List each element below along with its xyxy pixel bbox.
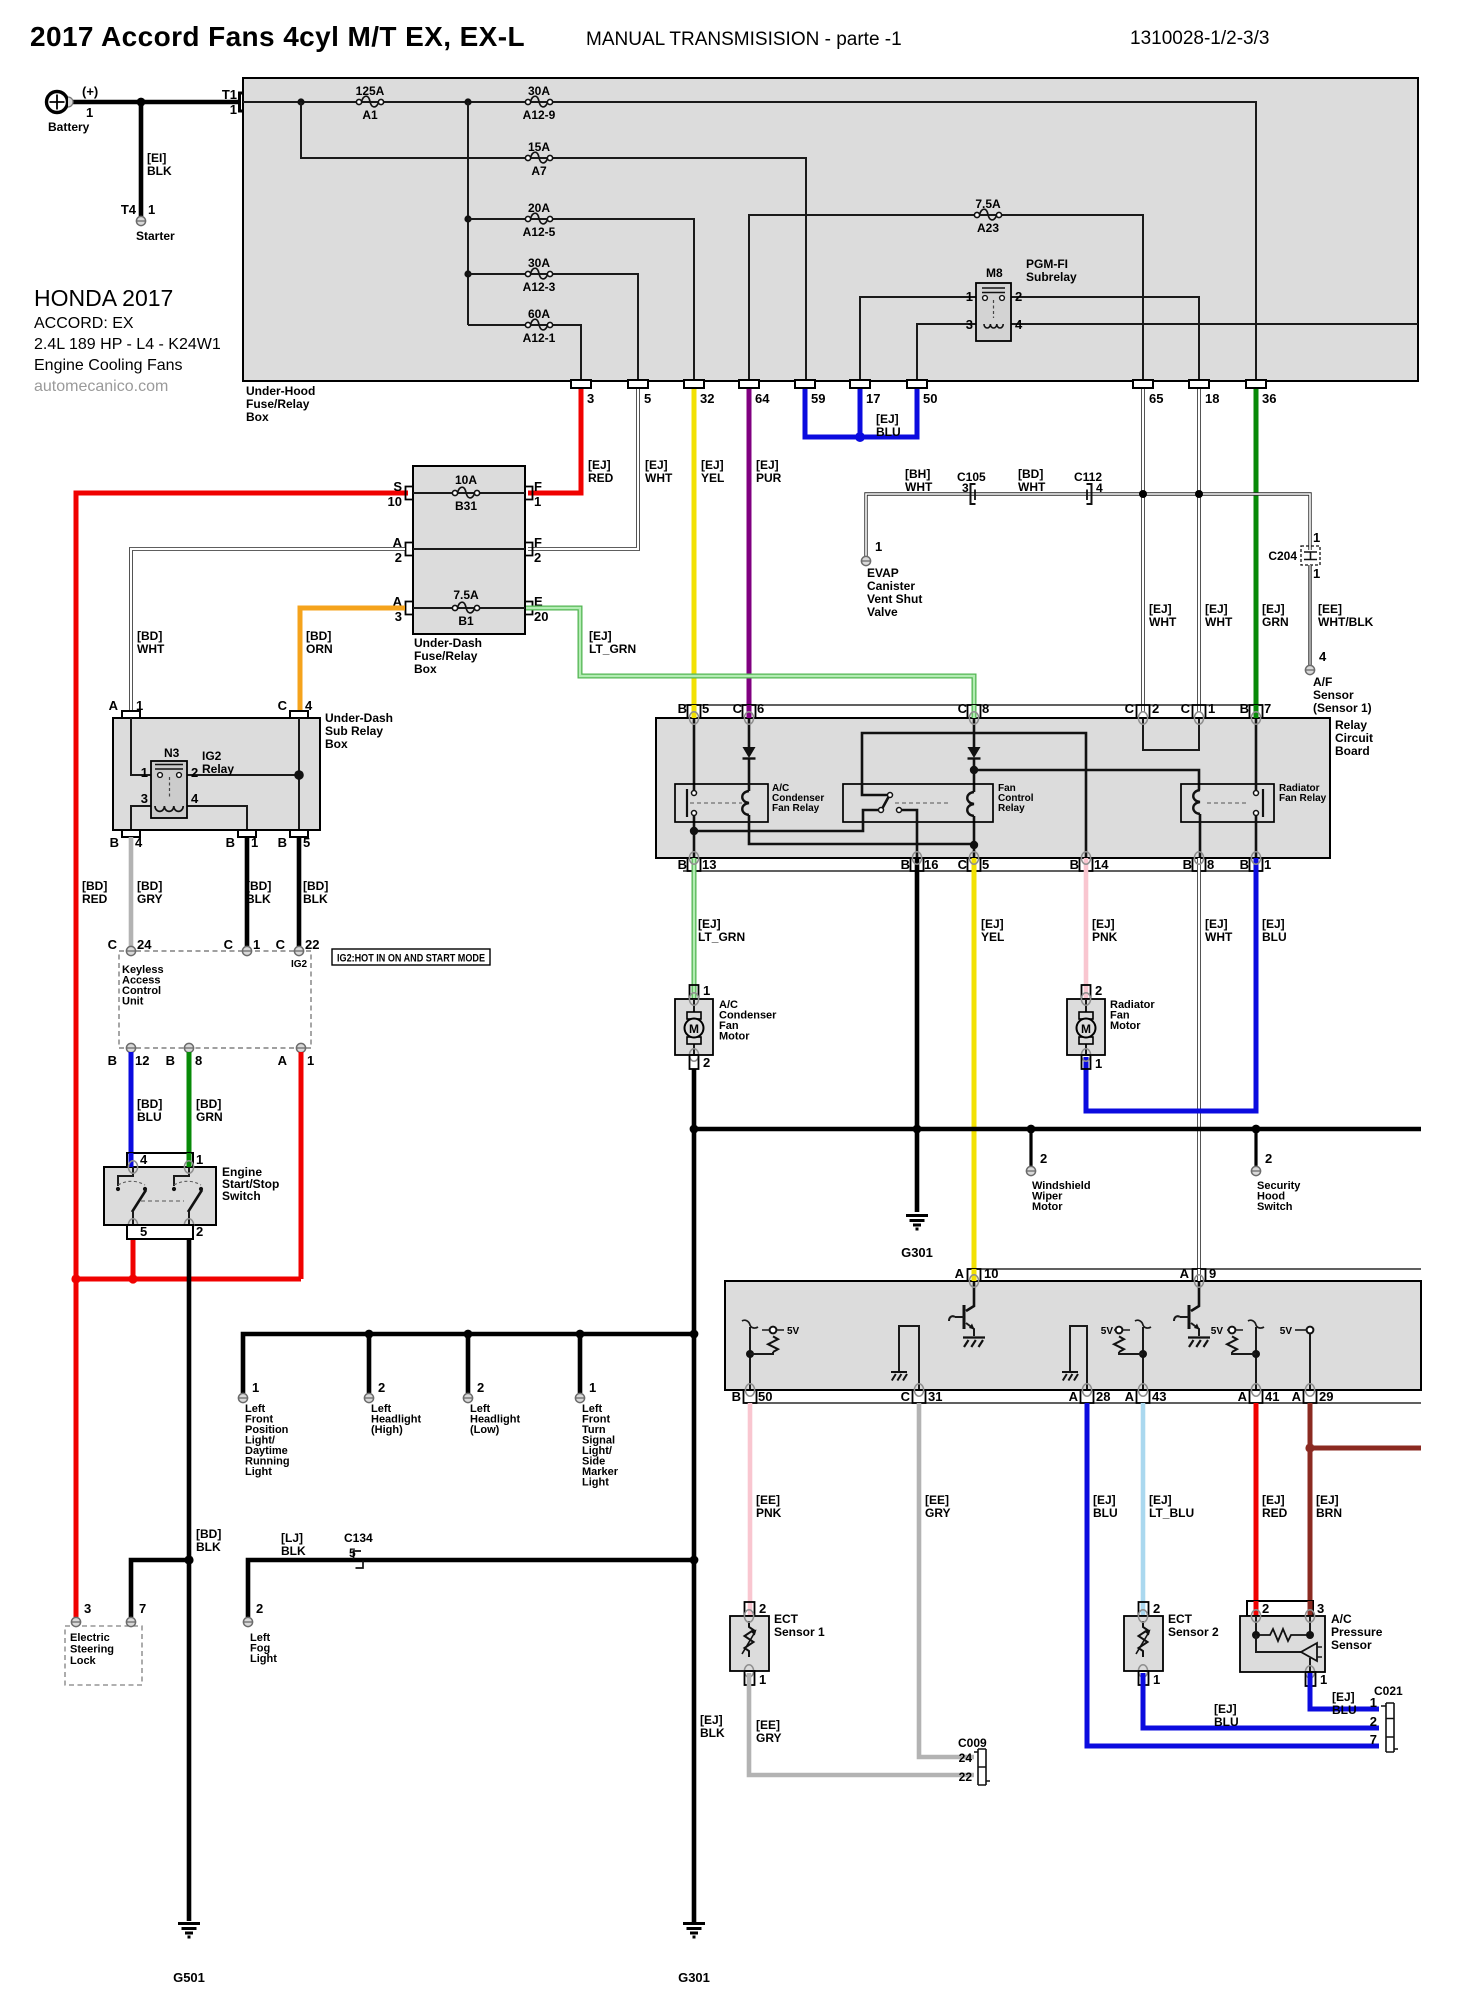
svg-text:A23: A23 (977, 221, 999, 235)
svg-text:50: 50 (923, 391, 937, 406)
svg-text:C: C (1181, 701, 1191, 716)
connector B1 (226, 830, 259, 850)
node gnd/security (1252, 1125, 1261, 1134)
svg-text:IG2: IG2 (202, 749, 222, 763)
wire yellow into B5 (692, 705, 697, 718)
svg-text:22: 22 (959, 1770, 973, 1784)
connector C009 (958, 1736, 990, 1785)
wire switch common to B14 (862, 733, 1086, 858)
wire diode to node (973, 759, 976, 792)
svg-text:[BD]: [BD] (82, 879, 107, 893)
wire blue into pin4 (129, 1153, 134, 1167)
svg-text:F: F (534, 535, 542, 550)
svg-text:[EJ]: [EJ] (700, 1713, 723, 1727)
svg-text:C: C (733, 701, 743, 716)
connector B50 ECM (744, 1390, 757, 1403)
svg-text:[EJ]: [EJ] (1149, 602, 1172, 616)
wire 7.5A A23 branch (749, 215, 1143, 381)
svg-text:20A: 20A (528, 201, 550, 215)
svg-text:Switch: Switch (222, 1189, 261, 1203)
svg-text:4: 4 (305, 698, 313, 713)
svg-text:PNK: PNK (756, 1506, 782, 1520)
svg-text:1: 1 (141, 765, 148, 780)
wire [EJ] WHT drop conn5 (528, 385, 638, 549)
wire [BD] ORN A3 to C4 (300, 608, 405, 713)
node B5/B13 junction (690, 827, 698, 835)
wire M8 pin3 to 50 (917, 324, 976, 381)
connector pin 65 under-hood box (1133, 380, 1163, 406)
svg-text:BLK: BLK (700, 1726, 725, 1740)
svg-text:B: B (226, 835, 235, 850)
node brown junction (1305, 1443, 1314, 1452)
svg-text:Light: Light (250, 1653, 277, 1665)
wire [BD] GRN B8 to switch1 (187, 1052, 192, 1153)
fuse B1 7.5A (452, 588, 479, 628)
svg-text:1: 1 (966, 289, 973, 304)
transistor A10 (949, 1281, 985, 1347)
wire green into B7 (1254, 705, 1259, 718)
svg-text:[EJ]: [EJ] (1262, 602, 1285, 616)
svg-text:[BD]: [BD] (137, 629, 162, 643)
A/C condenser fan relay box (675, 783, 824, 822)
svg-text:B: B (278, 835, 287, 850)
wire purple into C6 (747, 705, 752, 718)
wire B5 to contact (693, 718, 696, 790)
svg-text:[EE]: [EE] (756, 1718, 780, 1732)
node C8 (970, 766, 978, 774)
node D (464, 270, 471, 277)
svg-text:[BD]: [BD] (196, 1097, 221, 1111)
svg-text:15A: 15A (528, 140, 550, 154)
pin label B50 (732, 1389, 773, 1404)
svg-text:2: 2 (395, 550, 402, 565)
svg-text:(High): (High) (371, 1424, 403, 1436)
pin label B14 (1070, 857, 1110, 872)
svg-text:[EJ]: [EJ] (701, 458, 724, 472)
wire M8 pin1 to 17 (860, 297, 976, 381)
svg-text:Sensor 1: Sensor 1 (774, 1625, 825, 1639)
svg-text:22: 22 (305, 937, 319, 952)
connector B5 (278, 830, 311, 850)
connector C204 (1268, 530, 1320, 581)
EVAP canister white line (866, 494, 1310, 558)
svg-text:Vent Shut: Vent Shut (867, 592, 922, 606)
svg-text:B: B (166, 1053, 175, 1068)
svg-text:10: 10 (388, 494, 402, 509)
svg-text:1: 1 (196, 1152, 203, 1167)
svg-text:3: 3 (966, 317, 973, 332)
svg-text:64: 64 (755, 391, 770, 406)
wire [BD] WHT A2 to A1 (131, 549, 405, 713)
svg-text:50: 50 (758, 1389, 772, 1404)
svg-text:WHT: WHT (905, 480, 933, 494)
svg-text:ECT: ECT (1168, 1612, 1193, 1626)
svg-text:Sensor: Sensor (1313, 688, 1354, 702)
wire black B16 to G301 (915, 858, 920, 1212)
svg-text:14: 14 (1094, 857, 1109, 872)
svg-text:A: A (955, 1266, 965, 1281)
connector A43 ECM (1137, 1390, 1150, 1403)
svg-text:A: A (109, 698, 119, 713)
svg-text:BLU: BLU (1262, 930, 1287, 944)
wire [EJ] RED A41 to ACP2 (1254, 1403, 1259, 1602)
svg-text:2: 2 (534, 550, 541, 565)
connector C134 (344, 1531, 373, 1568)
svg-text:A12-3: A12-3 (523, 280, 556, 294)
fuse B31 10A (452, 473, 479, 513)
svg-text:[EJ]: [EJ] (645, 458, 668, 472)
wire A/C coil to C5 node (749, 815, 974, 844)
ECM A28 ground path (1062, 1326, 1087, 1390)
svg-text:BLU: BLU (876, 425, 901, 439)
svg-text:5: 5 (982, 857, 989, 872)
connector A2 (393, 535, 412, 565)
svg-text:2: 2 (1265, 1151, 1272, 1166)
svg-text:B31: B31 (455, 499, 477, 513)
svg-text:1: 1 (759, 1672, 766, 1687)
wire [EJ] YEL drop conn32 (692, 385, 697, 712)
svg-text:Motor: Motor (1110, 1020, 1141, 1032)
svg-text:GRY: GRY (925, 1506, 951, 1520)
terminal oval C2 (1138, 712, 1147, 724)
wire A2-F2 row (413, 548, 525, 550)
svg-text:28: 28 (1096, 1389, 1110, 1404)
svg-text:Starter: Starter (136, 229, 175, 243)
fuse A7 15A (525, 140, 552, 178)
svg-text:M: M (1081, 1022, 1091, 1036)
battery B+ wire (68, 100, 240, 105)
svg-text:LT_GRN: LT_GRN (589, 642, 636, 656)
label BH WHT (905, 467, 933, 494)
svg-text:Fan Relay: Fan Relay (772, 803, 820, 814)
connector C105 (957, 470, 986, 504)
svg-text:[EJ]: [EJ] (589, 629, 612, 643)
svg-text:WHT/BLK: WHT/BLK (1318, 615, 1374, 629)
svg-text:13: 13 (702, 857, 716, 872)
pin label A9 (1180, 1266, 1217, 1281)
node B (464, 98, 471, 105)
wire [EJ] LT_GRN E20 to C8 (526, 608, 974, 712)
wire [BD] GRY B4 to C24 (129, 837, 134, 948)
terminal C24 (108, 937, 153, 956)
svg-text:Sensor 2: Sensor 2 (1168, 1625, 1219, 1639)
pin label C1 (1181, 701, 1216, 716)
svg-text:GRY: GRY (756, 1731, 782, 1745)
switch pole right (141, 1167, 203, 1225)
svg-text:A: A (1069, 1389, 1079, 1404)
ECM top rail (968, 1268, 1421, 1270)
svg-text:7: 7 (139, 1601, 146, 1616)
Left Headlight Low (463, 1380, 520, 1436)
svg-text:65: 65 (1149, 391, 1163, 406)
svg-text:30A: 30A (528, 84, 550, 98)
svg-text:5: 5 (644, 391, 651, 406)
Windshield Wiper Motor (1026, 1129, 1090, 1213)
connector B7 relay board (1250, 705, 1263, 718)
ECM A43 pullup (1101, 1320, 1151, 1390)
wire [EJ] BRN A29 to ACP3 (1308, 1403, 1313, 1602)
svg-text:18: 18 (1205, 391, 1219, 406)
svg-text:125A: 125A (356, 84, 385, 98)
fuse A23 7.5A (974, 197, 1001, 235)
svg-text:A/C: A/C (1331, 1612, 1352, 1626)
svg-text:2: 2 (1152, 701, 1159, 716)
svg-text:[LJ]: [LJ] (281, 1531, 303, 1545)
main feed wire inside box (243, 102, 1256, 381)
diode fan control relay (968, 747, 981, 759)
node red left (71, 1274, 80, 1283)
svg-text:1: 1 (534, 494, 541, 509)
svg-text:7: 7 (1370, 1732, 1377, 1747)
svg-text:1: 1 (251, 835, 258, 850)
svg-text:2: 2 (1153, 1601, 1160, 1616)
terminal oval B14 (1081, 852, 1090, 864)
wire [EJ] GRN drop conn36 (1254, 385, 1259, 712)
svg-text:2.4L 189 HP - L4 - K24W1: 2.4L 189 HP - L4 - K24W1 (34, 336, 221, 353)
pin label A28 (1069, 1389, 1111, 1404)
svg-text:Battery: Battery (48, 120, 90, 134)
fuse A12-9 30A (523, 84, 556, 122)
connector pin 17 under-hood box (850, 380, 880, 406)
svg-text:4: 4 (135, 835, 143, 850)
terminal oval C5 (969, 852, 978, 864)
svg-text:WHT: WHT (1205, 615, 1233, 629)
svg-text:3: 3 (1317, 1601, 1324, 1616)
terminal oval C31 (914, 1384, 923, 1396)
svg-text:M: M (689, 1022, 699, 1036)
svg-text:[EE]: [EE] (756, 1493, 780, 1507)
svg-text:2: 2 (1262, 1601, 1269, 1616)
svg-text:1310028-1/2-3/3: 1310028-1/2-3/3 (1130, 28, 1269, 49)
svg-text:2017 Accord Fans 4cyl M/T EX,: 2017 Accord Fans 4cyl M/T EX, EX-L (30, 21, 525, 52)
svg-text:Pressure: Pressure (1331, 1625, 1383, 1639)
connector A28 ECM (1081, 1390, 1094, 1403)
terminal C22 (276, 937, 320, 970)
svg-text:B: B (1240, 857, 1249, 872)
connector A1 (109, 698, 144, 718)
svg-text:YEL: YEL (981, 930, 1004, 944)
svg-text:7.5A: 7.5A (453, 588, 479, 602)
wire coil to C5 (973, 816, 976, 858)
terminal oval B50 (745, 1384, 754, 1396)
svg-text:RED: RED (82, 892, 108, 906)
wire red switch pin5 (131, 1239, 136, 1279)
svg-text:1: 1 (1320, 1672, 1327, 1687)
Under-Hood Fuse/Relay Box (243, 78, 1418, 381)
wire radiator contact to B1 (1255, 815, 1258, 858)
svg-text:A: A (1180, 1266, 1190, 1281)
svg-text:7.5A: 7.5A (975, 197, 1001, 211)
svg-text:Steering: Steering (70, 1644, 114, 1656)
svg-text:BLU: BLU (137, 1110, 162, 1124)
svg-text:Light: Light (245, 1466, 272, 1478)
terminal oval B13 (689, 852, 698, 864)
svg-text:9: 9 (1209, 1266, 1216, 1281)
Radiator Fan Motor (1067, 983, 1155, 1071)
svg-text:B: B (678, 701, 687, 716)
svg-text:24: 24 (137, 937, 152, 952)
svg-text:LT_BLU: LT_BLU (1149, 1506, 1194, 1520)
svg-text:LT_GRN: LT_GRN (698, 930, 745, 944)
ECM A29 5V source (1280, 1326, 1314, 1390)
svg-text:5: 5 (140, 1224, 147, 1239)
svg-text:31: 31 (928, 1389, 942, 1404)
svg-text:[BD]: [BD] (306, 629, 331, 643)
svg-text:MANUAL TRANSMISISION - parte -: MANUAL TRANSMISISION - parte -1 (586, 29, 902, 50)
svg-text:2: 2 (1095, 983, 1102, 998)
connector C112 (1074, 470, 1103, 504)
svg-text:Under-Dash: Under-Dash (414, 636, 482, 650)
terminal oval B7 (1251, 712, 1260, 724)
svg-text:[EJ]: [EJ] (1205, 602, 1228, 616)
svg-text:60A: 60A (528, 307, 550, 321)
svg-text:8: 8 (195, 1053, 202, 1068)
svg-text:6: 6 (757, 701, 764, 716)
svg-text:Electric: Electric (70, 1632, 110, 1644)
connector A9 ECM (1193, 1269, 1206, 1281)
svg-text:IG2: IG2 (291, 959, 308, 970)
svg-text:1: 1 (589, 1380, 596, 1395)
svg-text:EVAP: EVAP (867, 566, 899, 580)
terminal oval A9 (1194, 1275, 1203, 1287)
wire C6 to diode (748, 718, 751, 747)
svg-text:Relay: Relay (202, 762, 234, 776)
connector B1 relay board (1250, 858, 1263, 871)
svg-text:M8: M8 (986, 266, 1003, 280)
wire switch left contact to B13 node (694, 810, 878, 831)
wire [EE] PNK B50 to ECT1 (748, 1403, 753, 1615)
svg-text:Fuse/Relay: Fuse/Relay (246, 397, 310, 411)
svg-text:ORN: ORN (306, 642, 333, 656)
connector A10 ECM (968, 1269, 981, 1281)
node red pin5 (128, 1274, 137, 1283)
wire [EJ] WHT B8 to A9 (1197, 858, 1201, 1269)
svg-text:10: 10 (984, 1266, 998, 1281)
svg-text:Relay: Relay (1335, 718, 1367, 732)
connector pin 50 under-hood box (907, 380, 937, 406)
svg-text:3: 3 (395, 609, 402, 624)
terminal B8 (166, 1043, 203, 1068)
svg-text:YEL: YEL (701, 471, 724, 485)
svg-text:A12-9: A12-9 (523, 108, 556, 122)
wire C8 to diode (973, 718, 976, 747)
radiator relay contact (1254, 789, 1264, 817)
svg-text:[BD]: [BD] (137, 879, 162, 893)
ECT Sensor 1 (730, 1601, 825, 1687)
svg-text:[EJ]: [EJ] (1262, 1493, 1285, 1507)
svg-text:59: 59 (811, 391, 825, 406)
svg-text:N3: N3 (164, 746, 180, 760)
svg-text:Lock: Lock (70, 1655, 97, 1667)
svg-text:Board: Board (1335, 744, 1370, 758)
terminal oval C8 (969, 712, 978, 724)
connector C021 (1370, 1684, 1403, 1752)
connector B8 relay board (1193, 858, 1206, 871)
svg-text:[EE]: [EE] (925, 1493, 949, 1507)
pin label B1 (1240, 857, 1272, 872)
switch bottom connector row (127, 1224, 203, 1239)
ECM A41 pullup (1211, 1320, 1264, 1390)
fuse row B1 internal wire (413, 607, 525, 609)
connector A41 ECM (1250, 1390, 1263, 1403)
svg-text:5: 5 (349, 1546, 356, 1560)
terminal oval B5 (689, 712, 698, 724)
battery (47, 84, 99, 134)
wire red to ESL pin3 (74, 1279, 79, 1617)
wire [EE] GRY ECT1 to C009-22 (749, 1673, 974, 1775)
svg-text:[EJ]: [EJ] (1316, 1493, 1339, 1507)
svg-text:Unit: Unit (122, 996, 144, 1008)
svg-text:ACCORD: EX: ACCORD: EX (34, 315, 134, 332)
svg-text:36: 36 (1262, 391, 1276, 406)
Keyless Access Control Unit (119, 951, 311, 1048)
svg-text:B: B (110, 835, 119, 850)
connector B13 relay board (688, 858, 701, 871)
svg-text:RED: RED (588, 471, 614, 485)
connector B14 relay board (1080, 858, 1093, 871)
wire ESL pin7 black jog (131, 1560, 189, 1617)
svg-text:T1: T1 (222, 87, 237, 102)
wire [EJ] YEL C5 to A10 (972, 858, 977, 1269)
svg-text:[EJ]: [EJ] (1205, 917, 1228, 931)
svg-text:F: F (534, 479, 542, 494)
svg-text:5: 5 (702, 701, 709, 716)
svg-text:BLU: BLU (1093, 1506, 1118, 1520)
svg-text:1: 1 (1153, 1672, 1160, 1687)
node pin2/C4 junction (294, 770, 304, 780)
svg-text:PNK: PNK (1092, 930, 1118, 944)
wire M8 pin2 to 18 (1011, 297, 1199, 381)
switch top connector row (127, 1152, 203, 1167)
svg-text:[EJ]: [EJ] (1092, 917, 1115, 931)
svg-text:Fan Relay: Fan Relay (1279, 793, 1327, 804)
connector B4 (110, 830, 143, 850)
svg-text:[EJ]: [EJ] (588, 458, 611, 472)
terminal A1 keyless (278, 1043, 315, 1068)
connector pin 36 under-hood box (1246, 380, 1276, 406)
terminal oval A29 (1305, 1384, 1314, 1396)
svg-text:A: A (1125, 1389, 1135, 1404)
pin label B13 (678, 857, 717, 872)
transistor A9 (1174, 1281, 1210, 1347)
pin label C8 (958, 701, 990, 716)
wire [BD] BLK B5 to C22 (297, 837, 302, 948)
node C (464, 215, 471, 222)
Left Front Turn Signal Light (575, 1380, 618, 1489)
wire [EJ] BLU ACP to C021-1 (1310, 1673, 1379, 1709)
ECM bottom rail (745, 1402, 1421, 1404)
svg-text:1: 1 (703, 983, 710, 998)
svg-text:B: B (901, 857, 910, 872)
pin label A41 (1238, 1389, 1280, 1404)
wire 30A branch (468, 274, 638, 381)
node fog/gnd junction (690, 1556, 699, 1565)
svg-text:BLK: BLK (246, 892, 271, 906)
wire [EJ] PNK B14 to rad motor (1084, 858, 1089, 998)
wire [BD] RED S10 to left rail (76, 493, 408, 1279)
wire [EJ] WHT drop conn65 (1141, 385, 1145, 712)
Left Front Position Light (238, 1380, 289, 1478)
Security Hood Switch (1251, 1129, 1301, 1213)
svg-text:A1: A1 (362, 108, 378, 122)
svg-text:8: 8 (1207, 857, 1214, 872)
svg-text:5V: 5V (1280, 1326, 1293, 1337)
terminal oval C1 (1194, 712, 1203, 724)
starter terminal T4 (121, 202, 175, 243)
svg-text:2: 2 (256, 1601, 263, 1616)
connector B16 relay board (911, 858, 924, 871)
svg-text:IG2:HOT IN ON AND START MODE: IG2:HOT IN ON AND START MODE (337, 953, 485, 965)
